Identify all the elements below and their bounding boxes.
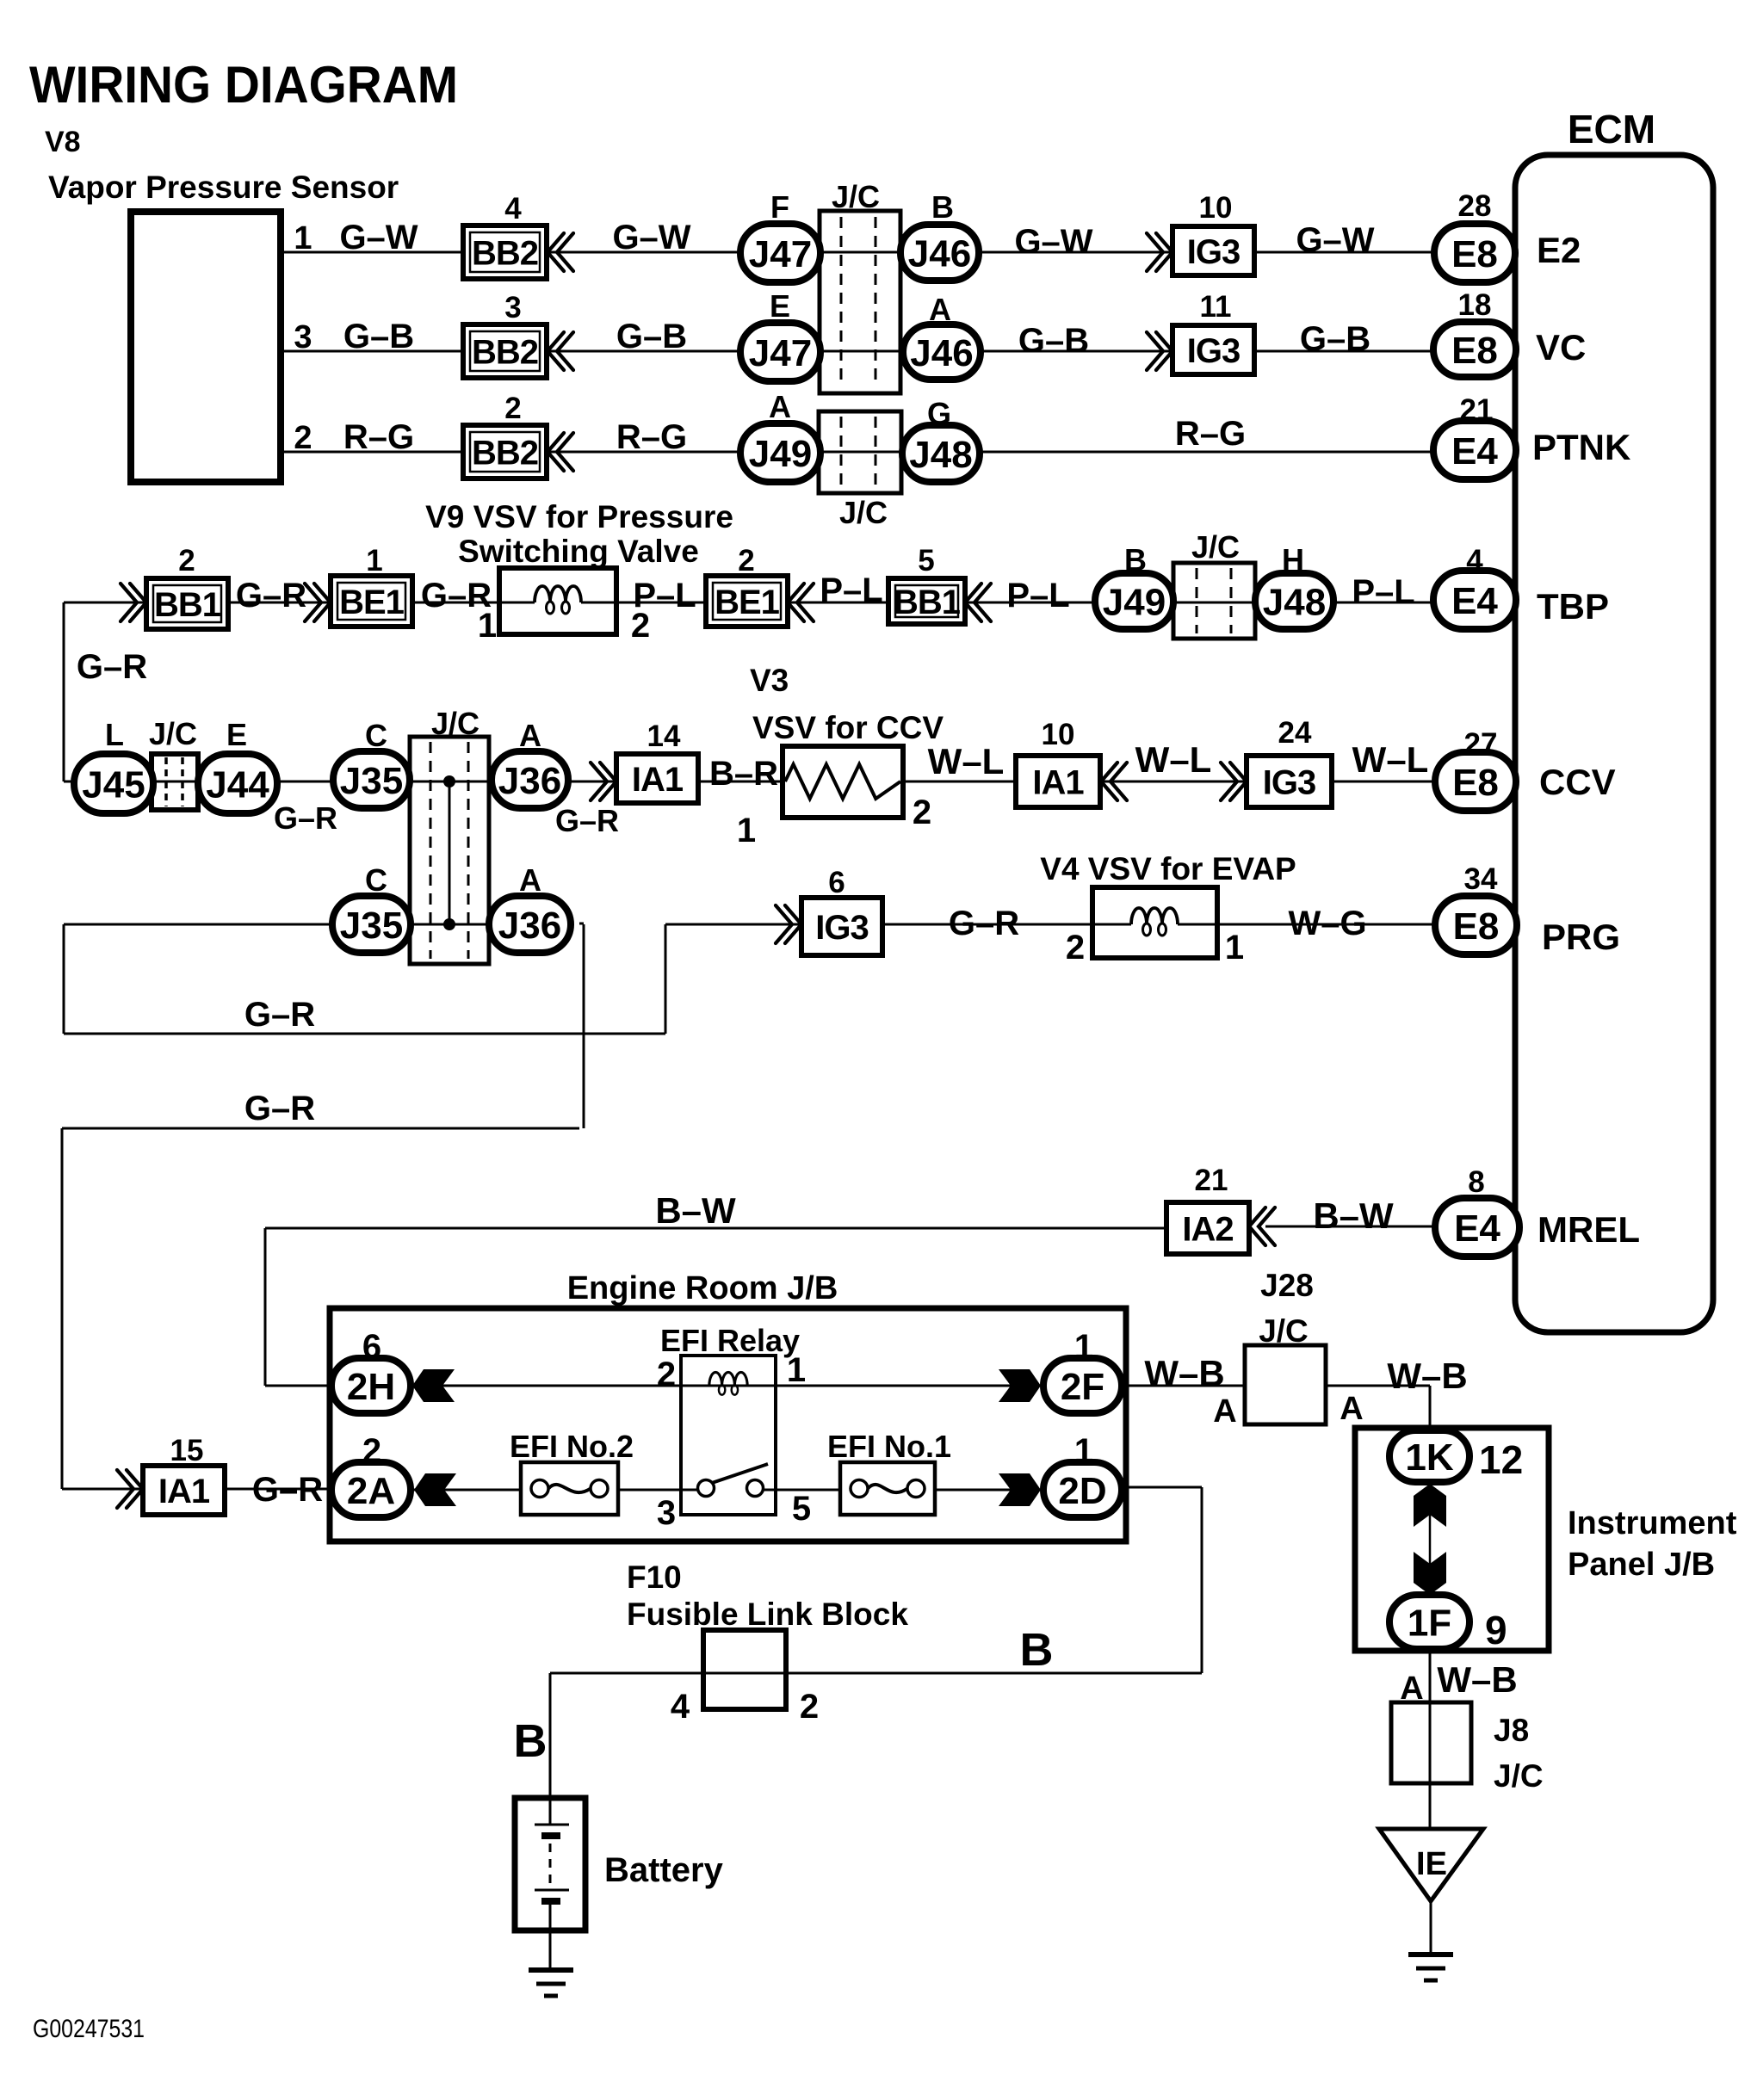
svg-text:Instrument: Instrument [1568, 1505, 1737, 1541]
svg-text:3: 3 [657, 1494, 676, 1532]
svg-text:14: 14 [647, 720, 681, 753]
svg-text:MREL: MREL [1538, 1209, 1640, 1250]
svg-text:IA1: IA1 [158, 1473, 210, 1510]
svg-text:G00247531: G00247531 [33, 2015, 145, 2043]
svg-text:H: H [1282, 542, 1304, 577]
svg-text:IE: IE [1416, 1846, 1447, 1882]
svg-text:2: 2 [738, 544, 754, 577]
svg-text:4: 4 [1466, 544, 1483, 577]
svg-text:1: 1 [478, 607, 497, 645]
svg-text:G–R: G–R [244, 996, 315, 1034]
svg-text:J/C: J/C [839, 495, 888, 530]
svg-text:6: 6 [828, 866, 845, 899]
svg-text:BE1: BE1 [715, 584, 780, 621]
svg-text:A: A [519, 718, 541, 753]
svg-text:1: 1 [366, 544, 382, 577]
svg-text:18: 18 [1458, 288, 1492, 322]
svg-text:10: 10 [1199, 191, 1233, 225]
svg-text:G–R: G–R [949, 905, 1019, 942]
svg-text:C: C [365, 862, 387, 898]
svg-text:2F: 2F [1061, 1366, 1104, 1408]
svg-text:3: 3 [294, 319, 312, 355]
svg-text:G–B: G–B [616, 318, 687, 355]
svg-text:E4: E4 [1454, 1207, 1500, 1250]
svg-text:BB1: BB1 [894, 584, 961, 621]
svg-text:V8: V8 [45, 126, 81, 158]
svg-text:J/C: J/C [1191, 529, 1240, 565]
svg-text:5: 5 [918, 544, 934, 577]
svg-text:BB2: BB2 [472, 234, 538, 272]
svg-text:A: A [1213, 1393, 1236, 1430]
svg-text:A: A [519, 862, 541, 898]
svg-text:1: 1 [1074, 1328, 1093, 1366]
svg-text:G–R: G–R [77, 648, 147, 686]
svg-text:6: 6 [362, 1328, 381, 1366]
svg-text:1: 1 [787, 1351, 806, 1389]
svg-text:J35: J35 [340, 760, 403, 802]
svg-text:BB1: BB1 [154, 586, 221, 624]
svg-text:IG3: IG3 [1187, 233, 1240, 271]
svg-text:1K: 1K [1405, 1436, 1453, 1479]
svg-text:2: 2 [1066, 929, 1085, 967]
svg-text:2: 2 [504, 392, 521, 425]
svg-text:J45: J45 [82, 763, 145, 806]
svg-text:E: E [770, 288, 790, 324]
svg-text:J46: J46 [908, 232, 971, 275]
svg-text:J/C: J/C [149, 716, 197, 751]
svg-text:G–W: G–W [339, 219, 418, 256]
svg-text:F10: F10 [627, 1560, 682, 1595]
svg-text:5: 5 [792, 1490, 811, 1528]
svg-text:2: 2 [178, 544, 195, 577]
svg-text:Fusible Link Block: Fusible Link Block [627, 1597, 908, 1632]
svg-text:J48: J48 [1263, 581, 1326, 623]
svg-text:BE1: BE1 [339, 584, 405, 621]
svg-text:E8: E8 [1453, 905, 1500, 948]
svg-text:J47: J47 [749, 233, 812, 275]
svg-text:P–L: P–L [1006, 577, 1069, 615]
svg-text:PTNK: PTNK [1532, 427, 1630, 467]
svg-text:28: 28 [1458, 189, 1492, 223]
svg-text:E8: E8 [1452, 762, 1499, 804]
svg-text:W–B: W–B [1144, 1353, 1224, 1393]
svg-text:A: A [769, 389, 791, 424]
svg-text:A: A [1340, 1391, 1363, 1427]
svg-text:2: 2 [657, 1356, 676, 1393]
svg-text:4: 4 [504, 192, 522, 225]
svg-text:J36: J36 [498, 905, 561, 947]
svg-text:G–B: G–B [1300, 320, 1370, 358]
svg-text:2H: 2H [347, 1366, 395, 1408]
svg-text:J36: J36 [498, 760, 561, 802]
svg-text:G–R: G–R [236, 577, 306, 615]
svg-text:VC: VC [1536, 327, 1586, 367]
svg-text:1: 1 [294, 220, 312, 256]
svg-text:11: 11 [1200, 290, 1232, 324]
svg-text:2D: 2D [1058, 1470, 1106, 1512]
svg-text:2A: 2A [347, 1470, 395, 1512]
svg-text:G–W: G–W [612, 219, 690, 256]
svg-text:V9 VSV for Pressure: V9 VSV for Pressure [425, 499, 733, 534]
svg-text:2: 2 [800, 1688, 819, 1726]
svg-text:R–G: R–G [616, 418, 687, 456]
svg-text:W–L: W–L [928, 741, 1005, 781]
svg-text:B: B [1020, 1624, 1054, 1676]
svg-text:V4 VSV for EVAP: V4 VSV for EVAP [1040, 851, 1296, 886]
svg-text:C: C [365, 718, 387, 753]
svg-text:2: 2 [294, 420, 312, 456]
svg-text:Vapor Pressure Sensor: Vapor Pressure Sensor [48, 170, 399, 205]
svg-text:G–R: G–R [252, 1471, 323, 1509]
svg-text:BB2: BB2 [472, 333, 538, 371]
svg-text:12: 12 [1479, 1437, 1523, 1482]
svg-text:E8: E8 [1451, 330, 1498, 372]
svg-text:1: 1 [1074, 1432, 1093, 1470]
svg-text:G–B: G–B [343, 318, 414, 355]
svg-text:J49: J49 [1103, 581, 1166, 623]
svg-text:2: 2 [362, 1432, 381, 1470]
svg-text:B–R: B–R [709, 755, 778, 793]
svg-text:W–L: W–L [1135, 739, 1212, 780]
svg-text:EFI No.1: EFI No.1 [827, 1429, 951, 1464]
svg-text:J/C: J/C [1259, 1313, 1309, 1349]
svg-text:EFI No.2: EFI No.2 [510, 1429, 634, 1464]
svg-text:IG3: IG3 [815, 909, 868, 947]
svg-text:P–L: P–L [633, 577, 696, 615]
svg-text:J35: J35 [340, 905, 403, 947]
svg-text:2: 2 [913, 794, 931, 831]
svg-text:J46: J46 [910, 332, 973, 374]
svg-text:G: G [927, 396, 951, 431]
svg-text:IG3: IG3 [1187, 332, 1240, 370]
svg-text:WIRING DIAGRAM: WIRING DIAGRAM [29, 56, 458, 114]
svg-text:W–G: W–G [1288, 905, 1366, 942]
svg-text:P–L: P–L [820, 571, 882, 609]
svg-text:F: F [770, 189, 789, 225]
svg-text:27: 27 [1464, 727, 1498, 761]
svg-text:3: 3 [504, 291, 521, 324]
svg-text:E4: E4 [1451, 430, 1498, 472]
svg-text:R–G: R–G [1175, 415, 1246, 453]
svg-text:21: 21 [1195, 1164, 1228, 1197]
svg-text:EFI Relay: EFI Relay [660, 1323, 800, 1358]
svg-text:P–L: P–L [1352, 573, 1414, 611]
svg-text:34: 34 [1464, 862, 1498, 896]
svg-text:IA2: IA2 [1182, 1210, 1233, 1248]
svg-text:IA1: IA1 [632, 761, 684, 799]
svg-text:9: 9 [1485, 1608, 1507, 1652]
svg-text:1: 1 [1225, 929, 1244, 967]
svg-text:ECM: ECM [1568, 107, 1655, 151]
svg-text:PRG: PRG [1542, 917, 1620, 957]
svg-text:J/C: J/C [832, 179, 880, 214]
svg-text:A: A [929, 292, 951, 327]
svg-text:L: L [105, 717, 124, 752]
svg-text:B–W: B–W [1313, 1195, 1394, 1236]
svg-text:W–L: W–L [1352, 739, 1429, 780]
svg-text:J44: J44 [206, 763, 269, 806]
svg-text:B: B [514, 1715, 548, 1767]
svg-text:BB2: BB2 [472, 434, 538, 472]
svg-text:10: 10 [1042, 718, 1075, 751]
svg-text:4: 4 [671, 1688, 690, 1726]
svg-text:IG3: IG3 [1263, 763, 1315, 801]
svg-text:G–B: G–B [1018, 322, 1089, 360]
svg-text:15: 15 [170, 1434, 204, 1467]
svg-text:V3: V3 [750, 663, 789, 698]
svg-text:J/C: J/C [431, 706, 480, 741]
svg-text:J/C: J/C [1494, 1758, 1544, 1794]
svg-text:B: B [931, 189, 954, 225]
svg-text:IA1: IA1 [1032, 763, 1084, 801]
svg-text:G–W: G–W [1296, 221, 1374, 259]
svg-text:Panel J/B: Panel J/B [1568, 1547, 1715, 1583]
svg-text:Battery: Battery [604, 1851, 724, 1889]
svg-text:B: B [1124, 542, 1147, 577]
svg-text:G–R: G–R [274, 800, 337, 836]
svg-text:E4: E4 [1451, 580, 1498, 622]
svg-text:R–G: R–G [343, 418, 414, 456]
svg-text:E2: E2 [1537, 230, 1581, 270]
svg-text:W–B: W–B [1437, 1659, 1517, 1700]
svg-text:G–R: G–R [555, 803, 619, 838]
svg-text:W–B: W–B [1387, 1356, 1467, 1396]
svg-text:J49: J49 [749, 433, 812, 475]
svg-text:A: A [1400, 1671, 1423, 1707]
svg-text:21: 21 [1460, 393, 1494, 427]
svg-text:J47: J47 [749, 332, 812, 374]
svg-text:E: E [226, 717, 247, 752]
svg-text:J28: J28 [1260, 1268, 1314, 1303]
svg-text:Switching Valve: Switching Valve [458, 534, 699, 569]
svg-text:CCV: CCV [1539, 762, 1616, 802]
svg-text:24: 24 [1278, 716, 1312, 750]
svg-text:VSV for CCV: VSV for CCV [752, 710, 944, 745]
svg-text:J8: J8 [1494, 1713, 1529, 1748]
svg-text:G–R: G–R [244, 1090, 315, 1127]
svg-text:1F: 1F [1408, 1602, 1451, 1644]
svg-text:8: 8 [1468, 1165, 1484, 1199]
svg-text:1: 1 [737, 812, 756, 849]
svg-text:G–W: G–W [1014, 223, 1092, 261]
svg-text:Engine Room J/B: Engine Room J/B [567, 1270, 838, 1306]
svg-text:J48: J48 [909, 434, 972, 476]
svg-text:B–W: B–W [655, 1190, 736, 1231]
svg-text:TBP: TBP [1537, 586, 1609, 627]
svg-text:E8: E8 [1451, 233, 1498, 275]
